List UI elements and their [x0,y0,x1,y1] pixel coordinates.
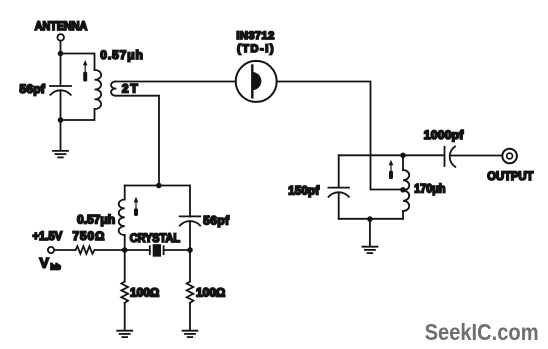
svg-text:ANTENNA: ANTENNA [35,19,88,33]
ground (tank) [362,247,377,253]
wire 1000pf to output [450,155,502,157]
wire 2T bottom down to crystal section [116,96,159,186]
antenna terminal [57,34,64,41]
wire junction to 56pf top [60,54,62,87]
wire crystal section top rail [125,185,190,187]
wire diode to tank tap [277,82,403,190]
svg-text:56pf: 56pf [203,213,230,227]
node tank top [400,153,406,159]
node tank tap [400,187,406,193]
wire right resistor to ground [189,303,191,330]
node left lower junction [58,117,64,123]
wire tank top rail [339,154,445,156]
svg-text:Vbb: Vbb [40,255,61,272]
resistor R2 100ohm (left) [121,282,128,304]
node tank ground junction [367,216,373,222]
wire left node down [124,250,126,282]
svg-text:2T: 2T [122,82,138,96]
svg-text:(TD-I): (TD-I) [237,43,274,55]
tuning slug arrow (L1) [83,60,88,82]
capacitor C 56pf (antenna) [50,86,71,95]
ground (right 100ohm) [183,331,198,337]
wire coil bottom to junction [61,109,95,120]
tuning slug arrow (L2) [389,160,394,179]
wire right node down [189,250,191,282]
battery terminal +1.5V [48,247,54,253]
svg-text:0.57μh: 0.57μh [100,48,143,62]
output terminal [502,149,517,164]
ground (antenna branch) [53,151,68,158]
svg-text:750Ω: 750Ω [73,229,105,243]
svg-text:150pf: 150pf [288,186,319,198]
node crystal right [187,247,193,253]
inductor 2T link winding [111,81,116,95]
inductor L2 170uh [403,155,409,219]
svg-text:SeekIC.com: SeekIC.com [425,319,539,345]
inductor L1 0.57uh (antenna) [95,70,102,109]
svg-text:100Ω: 100Ω [196,286,225,300]
wire left resistor to ground [124,303,126,330]
wire 56pf to lower junction [60,90,62,150]
svg-text:56pf: 56pf [20,82,46,96]
crystal Y1 [150,244,164,257]
resistor R3 100ohm (right) [187,282,194,304]
resistor R1 750ohm [76,246,95,254]
node antenna junction [58,51,64,57]
svg-text:IN3712: IN3712 [236,30,274,42]
inductor L3 0.57uh (crystal) [119,186,125,251]
svg-text:0.57μh: 0.57μh [77,213,115,227]
wire junction to coil top [61,54,95,71]
svg-text:+1.5V: +1.5V [33,229,63,243]
ground (left 100ohm) [117,331,132,337]
capacitor C 56pf (crystal) [180,186,201,251]
wire 2T top to diode [116,81,235,83]
capacitor C 1000pf [445,147,456,167]
wire terminal to resistor [54,249,75,251]
svg-text:100Ω: 100Ω [130,286,159,300]
tunnel diode D1 IN3712 [236,61,277,102]
capacitor C 150pf [328,155,349,219]
tuning slug arrow (L3) [134,197,139,216]
wire resistor to crystal [95,249,150,251]
node crystal left [122,247,128,253]
svg-text:1000pf: 1000pf [424,128,465,142]
wire crystal to right node [164,249,190,251]
wire tank ground stub [369,219,371,246]
wire tank bottom rail [339,218,403,220]
wire antenna stub [60,41,62,54]
svg-text:CRYSTAL: CRYSTAL [130,231,180,245]
svg-text:170μh: 170μh [414,181,445,195]
node crystal section top [156,183,162,189]
svg-text:OUTPUT: OUTPUT [487,169,534,183]
